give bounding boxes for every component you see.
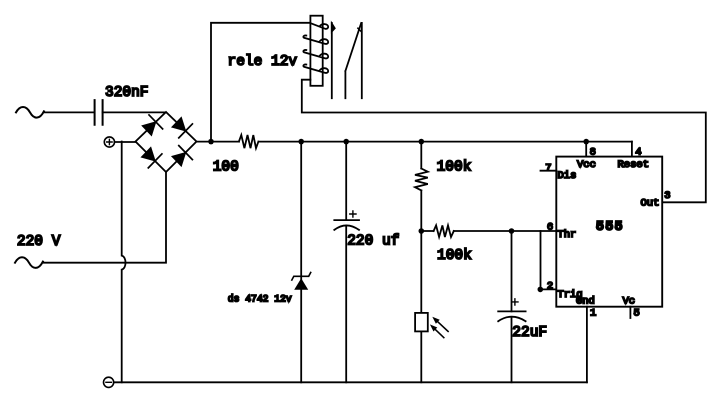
wire AC1 to capacitor <box>44 111 95 113</box>
svg-text:6: 6 <box>547 222 553 234</box>
node divider junction <box>419 228 425 234</box>
wire relay coil return to 555 output <box>302 80 706 203</box>
wire 22uF branch upper <box>511 231 513 311</box>
relay coil winding <box>311 23 329 29</box>
node 22uF tap <box>509 228 515 234</box>
bridge diode D3 (bottom-left) <box>141 147 155 161</box>
minus terminal <box>104 377 114 387</box>
wire pin 4 drop <box>631 142 633 157</box>
wire 22uF branch lower <box>511 317 513 382</box>
resistor R1 100 <box>239 135 259 148</box>
capacitor C1 320nF plates <box>95 100 103 125</box>
node zener tap <box>298 139 304 145</box>
svg-text:220 V: 220 V <box>17 234 61 250</box>
relay K1 core <box>310 16 322 86</box>
svg-text:8: 8 <box>590 146 596 158</box>
wire R2 to LDR <box>420 190 422 313</box>
bridge diode D1 (top-left) <box>142 122 156 136</box>
capacitor C2 220uF bottom plate <box>334 225 359 230</box>
svg-text:555: 555 <box>596 220 624 235</box>
wire zener branch <box>300 142 302 383</box>
IC U1 555 body <box>556 157 662 307</box>
wire LDR to ground bus <box>420 331 422 382</box>
svg-text:100k: 100k <box>437 159 472 175</box>
AC source terminal 2 (tilde) <box>15 257 43 268</box>
wire pin 8 <box>585 142 587 157</box>
plus terminal <box>104 137 114 147</box>
svg-text:rele 12v: rele 12v <box>228 54 298 70</box>
wire relay feed riser <box>211 23 310 142</box>
wire bridge-left down to ground bus (with hop over AC wire) <box>122 142 126 383</box>
svg-text:2: 2 <box>547 280 553 292</box>
node trigger <box>538 287 544 293</box>
svg-text:7: 7 <box>545 162 551 174</box>
svg-text:3: 3 <box>664 190 670 202</box>
ground bus <box>114 381 587 383</box>
bridge diode D2 (top-right) <box>172 117 186 131</box>
wire trigger drop <box>540 231 542 289</box>
wire pin 1 ground <box>586 307 588 383</box>
relay contact fixed 1 <box>331 23 333 98</box>
svg-text:22uF: 22uF <box>512 325 547 341</box>
wire to R2 <box>420 142 422 169</box>
node 100k tap <box>419 139 425 145</box>
svg-text:100k: 100k <box>437 248 472 264</box>
capacitor C3 22uF bottom plate <box>498 317 525 322</box>
wire 220uF branch lower <box>345 226 347 383</box>
wire AC2 to bridge bottom <box>43 172 166 263</box>
wire pin 7 stub <box>541 170 557 172</box>
svg-text:1: 1 <box>590 308 596 320</box>
resistor R2 100k vertical <box>415 169 428 191</box>
svg-text:Vc: Vc <box>623 295 636 307</box>
svg-text:Gnd: Gnd <box>576 295 595 307</box>
wire capacitor to bridge top <box>103 111 166 113</box>
wire plus terminal to bridge left <box>115 141 136 143</box>
svg-text:Out: Out <box>641 197 660 209</box>
main +12V bus <box>197 141 632 143</box>
svg-text:4: 4 <box>635 146 641 158</box>
svg-text:Vcc: Vcc <box>577 159 596 171</box>
wire divider to R3 <box>421 230 433 232</box>
capacitor C2 220uF plus sign <box>350 211 356 217</box>
svg-text:320nF: 320nF <box>105 85 149 101</box>
zener diode DZ body <box>294 278 308 289</box>
resistor R3 100k horizontal <box>434 225 454 237</box>
relay contact blade <box>345 23 361 98</box>
zener diode DZ cathode bar <box>292 273 311 281</box>
LDR light arrow 2 <box>435 329 444 337</box>
capacitor C3 22uF plus sign <box>512 299 518 305</box>
relay contact fixed 2 <box>361 23 363 98</box>
capacitor C2 220uF top plate <box>334 219 359 221</box>
wire pin 2 stub <box>541 288 557 290</box>
LDR body <box>415 313 428 332</box>
AC source terminal 1 (tilde) <box>16 107 44 118</box>
node bridge output <box>208 139 214 145</box>
node Vcc <box>583 139 589 145</box>
svg-text:Reset: Reset <box>618 159 650 171</box>
wire pin 5 stub <box>629 307 631 318</box>
svg-text:100: 100 <box>213 159 239 175</box>
wire 220uF branch upper <box>345 142 347 221</box>
svg-text:Thr: Thr <box>557 229 576 241</box>
node 220uF tap <box>343 139 349 145</box>
diode bridge outline <box>136 112 197 172</box>
bridge diode D4 (bottom-right) <box>172 153 186 167</box>
svg-text:Dis: Dis <box>558 170 577 182</box>
svg-text:5: 5 <box>634 308 640 320</box>
wire R3 to pin 6 <box>454 230 557 232</box>
svg-text:220 uf: 220 uf <box>347 234 399 250</box>
capacitor C3 22uF top plate <box>498 310 525 312</box>
LDR light arrow 1 <box>438 322 449 332</box>
svg-text:ds 4742 12v: ds 4742 12v <box>228 293 292 304</box>
